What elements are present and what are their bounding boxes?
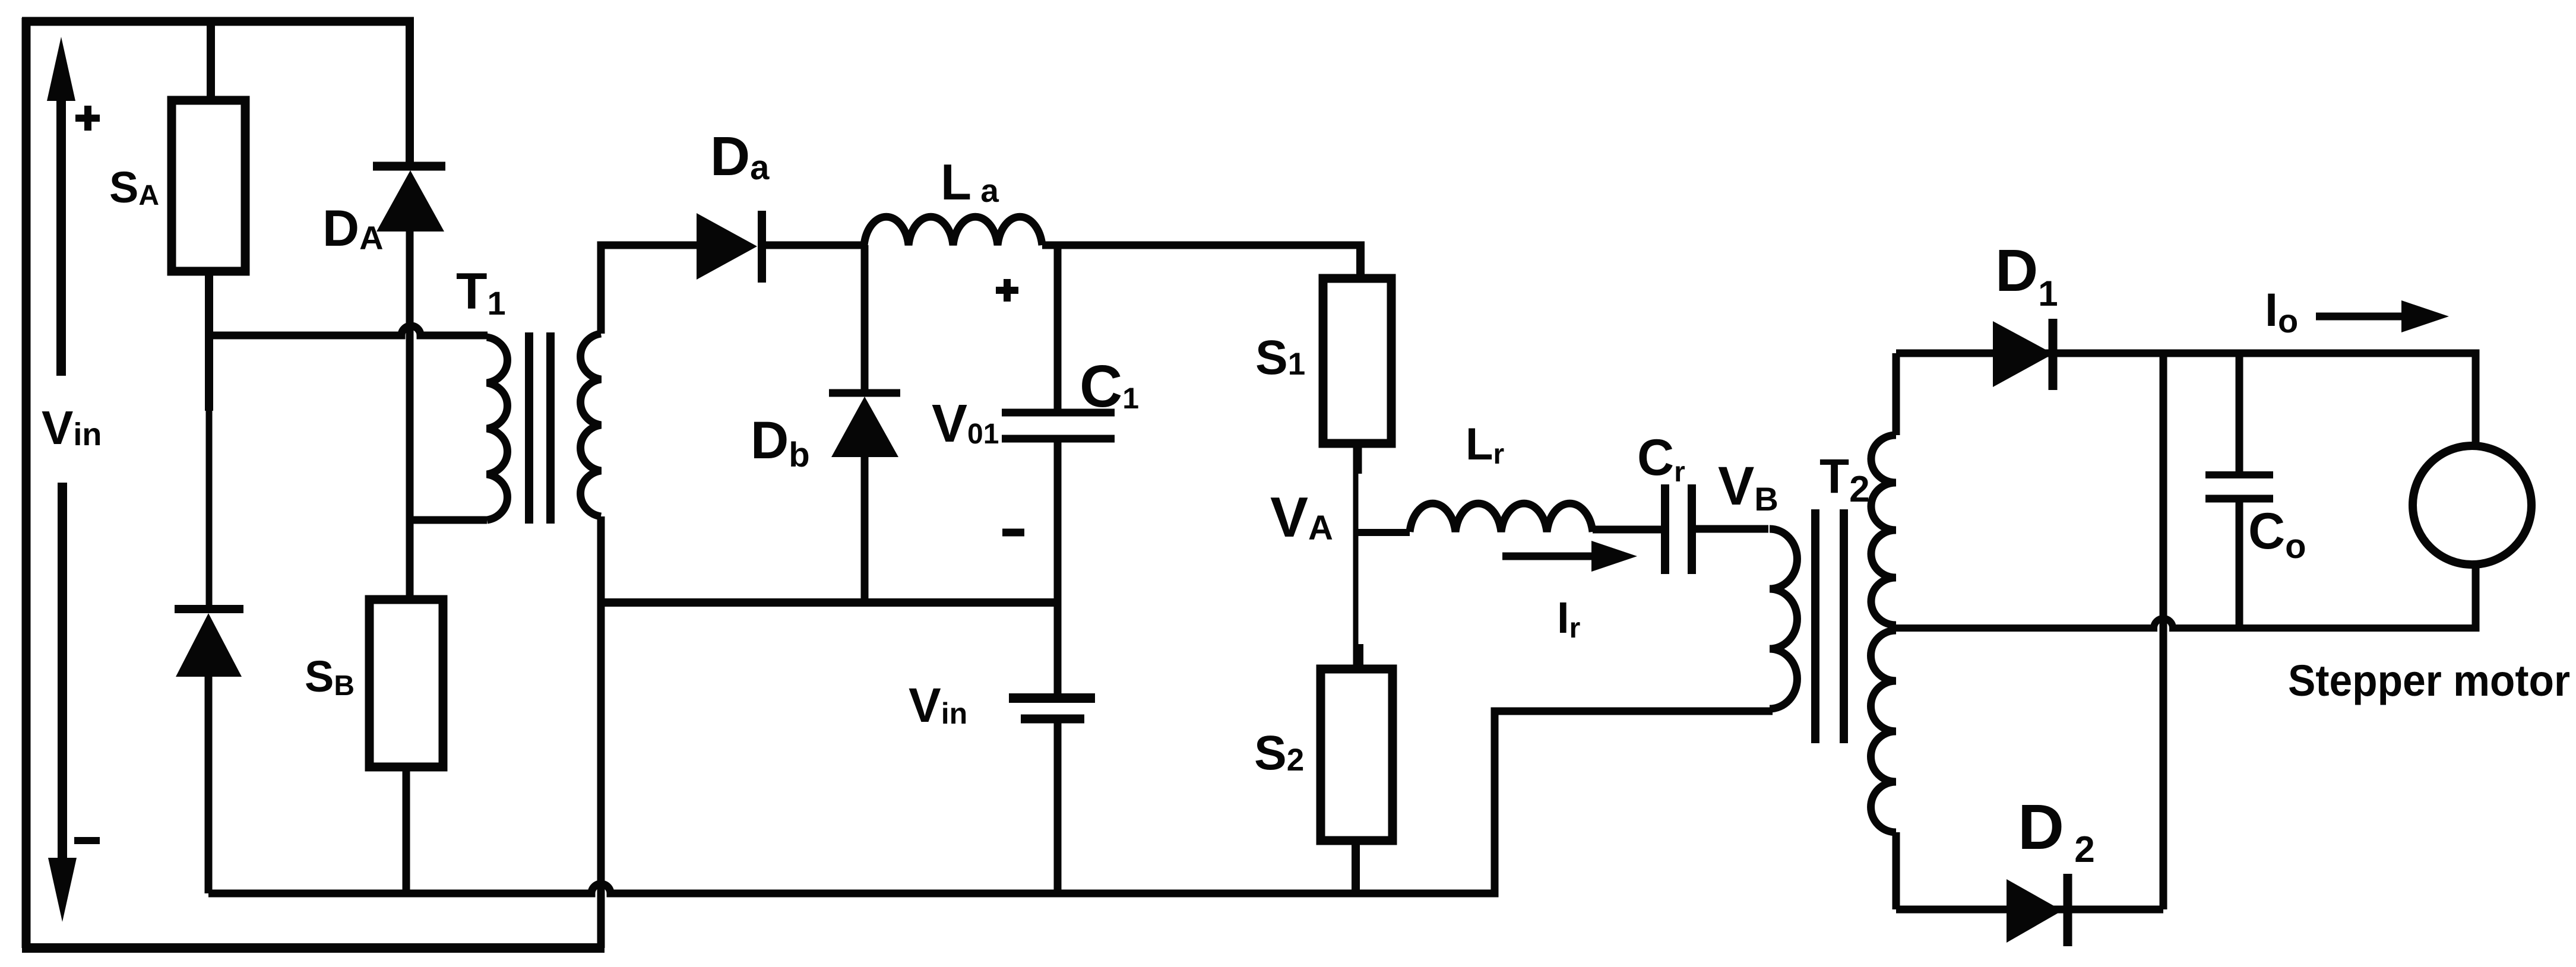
diode Da cathode bar: [758, 211, 766, 283]
wire motor bottom: [2472, 563, 2480, 632]
transformer T2 primary winding: [1770, 529, 1797, 709]
wire Db branch top: [861, 245, 869, 391]
wire C1 top: [1054, 245, 1062, 413]
wire SA top stub: [207, 18, 215, 100]
switch SA: [172, 100, 245, 271]
wire outer box bottom edge: [22, 943, 605, 953]
diode D1 triangle: [1993, 321, 2053, 387]
wire Lr to Cr: [1593, 526, 1661, 534]
wire Vin up-arrow head: [47, 37, 75, 101]
wire battery bottom: [1054, 719, 1062, 893]
wire mid bottom rail (Vo1 minus rail): [601, 598, 1058, 607]
diode D2 cathode bar: [2064, 874, 2072, 946]
wire Co bottom: [2236, 499, 2243, 628]
wire S1 top stub: [1356, 242, 1365, 278]
node - (Vo1 minus): [1002, 529, 1024, 537]
transformer T1 secondary winding: [581, 334, 601, 516]
wire cathode bus vertical: [2160, 353, 2167, 909]
wire DA branch down to SB: [406, 229, 414, 600]
transformer T2 core bars: [1815, 509, 1844, 743]
switch S2: [1321, 669, 1393, 841]
diode (left leg, unlabeled) triangle: [176, 613, 242, 677]
wire T1 secondary top rail to Da: [601, 245, 697, 334]
node + (Vo1 plus): [996, 279, 1018, 302]
transformer T1 primary winding: [487, 337, 507, 520]
wire T1 secondary bottom rail (down right edge): [597, 516, 605, 948]
diode (left leg, unlabeled) cathode bar: [175, 605, 243, 613]
transformer T2 secondary winding upper: [1871, 435, 1896, 625]
battery Vin negative plate: [1021, 715, 1084, 724]
wire Da cathode to La: [762, 242, 864, 249]
wire C1 bottom / battery top: [1054, 439, 1062, 698]
wire Co top: [2236, 353, 2243, 475]
capacitor C1 top plate: [1002, 409, 1115, 417]
wire S2 bottom stub: [1352, 841, 1360, 893]
wire outer box left edge: [22, 18, 31, 948]
wire S2 top stub: [1355, 644, 1363, 669]
wire T2 secondary top to D1 rail: [1893, 353, 1900, 435]
wire left diode to bottom rail: [205, 674, 213, 893]
wire Vin down-arrow shaft: [58, 483, 67, 861]
capacitor Cr left plate: [1661, 484, 1669, 574]
capacitor Co bottom plate: [2205, 495, 2273, 503]
wire Cr to T2 primary: [1696, 525, 1768, 533]
inductor Lr: [1410, 503, 1593, 532]
switch S1: [1323, 278, 1391, 443]
wire bottom return rail (hop over right edge): [208, 711, 1773, 893]
diode Db triangle: [831, 397, 898, 457]
node - (Vin minus): [74, 837, 100, 844]
wire Db to bottom mid rail: [861, 455, 869, 603]
capacitor Co top plate: [2205, 471, 2273, 478]
diode Db cathode bar: [829, 389, 900, 397]
wire T1 primary bottom to DA branch: [410, 516, 487, 524]
wire SB bottom stub: [403, 767, 410, 893]
diode DA triangle: [376, 170, 444, 232]
svg-text:Stepper motor: Stepper motor: [2288, 656, 2570, 705]
wire SA-to-T1 primary top (hop over DA branch): [209, 326, 488, 335]
inductor La: [864, 217, 1042, 245]
wire outer box top edge: [22, 17, 414, 26]
capacitor C1 bottom plate: [1002, 435, 1115, 443]
transformer T1 core bars: [529, 332, 550, 524]
wire DA branch top: [406, 18, 414, 163]
wire D1 top rail: [1896, 353, 2476, 448]
wire VA to Lr: [1356, 529, 1410, 536]
wire S1 bottom to S2 (node VA vertical): [1353, 443, 1362, 474]
diode DA cathode bar: [373, 162, 445, 171]
wire La to S1 corner: [1042, 242, 1365, 249]
wire Vin down-arrow head: [48, 858, 77, 922]
arrow Ir: [1502, 553, 1591, 560]
wire T2 center tap rail (hop over cathode bus): [1896, 619, 2476, 628]
wire D2 bottom rail: [1896, 906, 2163, 914]
wire SA bottom to diode: [205, 271, 213, 411]
capacitor Cr right plate: [1688, 484, 1696, 574]
node + (Vin plus): [75, 106, 100, 131]
transformer T2 secondary winding lower: [1871, 630, 1896, 832]
diode D2 triangle: [2007, 879, 2062, 943]
arrow Io: [2316, 313, 2404, 321]
wire T2 secondary bottom to D2 rail: [1893, 832, 1900, 909]
diode Da triangle: [697, 213, 757, 280]
diode D1 cathode bar: [2049, 319, 2058, 390]
switch SB: [369, 600, 443, 767]
wire Vin up-arrow shaft: [56, 95, 66, 376]
battery Vin positive plate: [1009, 693, 1095, 703]
motor stepper circle: [2413, 446, 2531, 565]
